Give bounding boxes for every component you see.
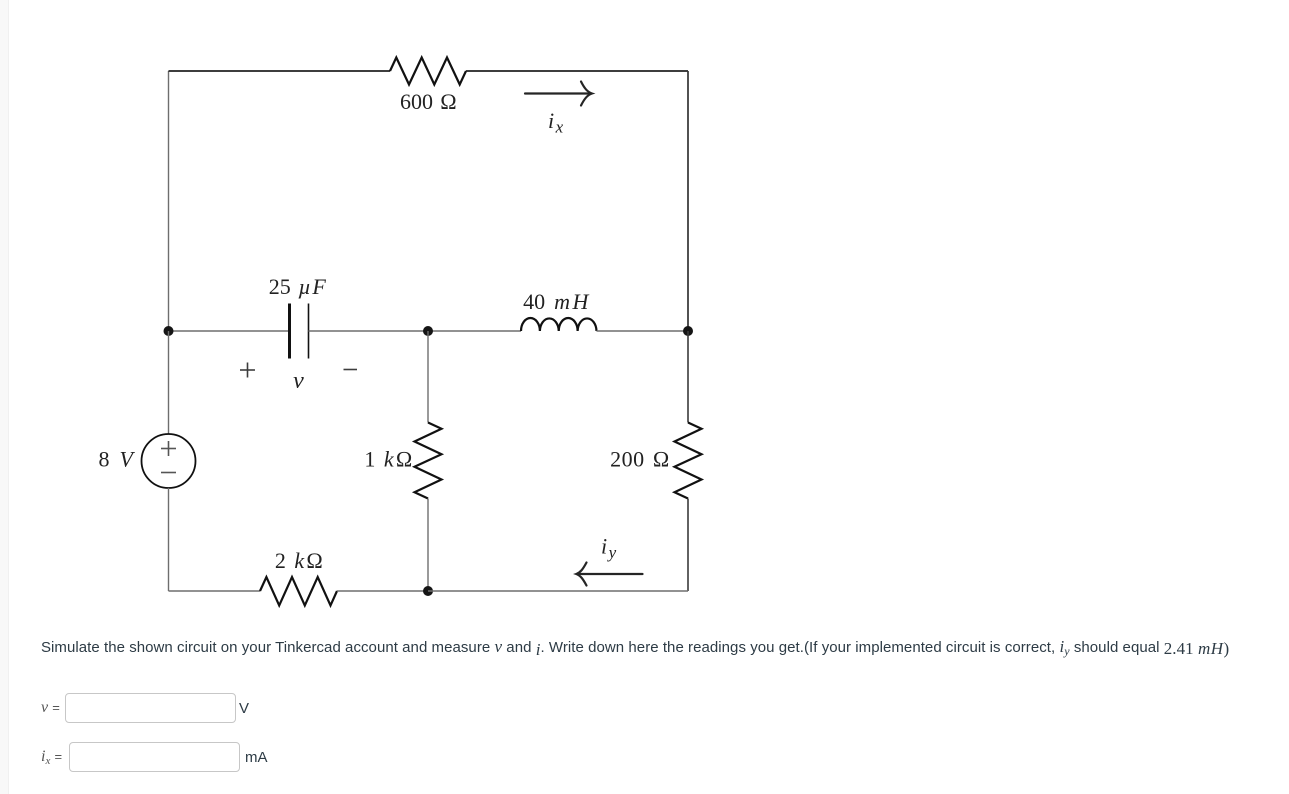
resistor 1 kOhm (415, 423, 442, 499)
answer row i_x (41, 748, 62, 767)
current arrow i_x (525, 82, 592, 106)
wire: bottom horizontal, node to bottom-right corner (428, 590, 688, 592)
svg-text:200 Ω: 200 Ω (610, 447, 670, 472)
voltage source 8 V (142, 434, 196, 488)
wire: middle rail, left node to capacitor (169, 330, 290, 332)
wire: right vertical, node to 200 ohm resistor (687, 331, 689, 423)
node B (middle-center) (423, 326, 433, 336)
wire: right vertical, 200 ohm to bottom-right corner (687, 499, 689, 592)
wire: left vertical, node to source top (168, 331, 170, 434)
svg-text:ix: ix (548, 108, 564, 137)
polarity plus (240, 363, 255, 378)
wire: left vertical, top corner to middle-left node (168, 71, 170, 331)
wire: middle rail, capacitor to center node (309, 330, 429, 332)
svg-text:2 kΩ: 2 kΩ (275, 548, 323, 573)
node C (middle-right) (683, 326, 693, 336)
question paragraph (41, 637, 1229, 659)
svg-text:600 Ω: 600 Ω (400, 89, 457, 114)
resistor 2 kOhm (260, 577, 337, 606)
wire: right vertical upper, top corner to middle-right node (687, 71, 689, 331)
inductor 40 mH (521, 318, 597, 331)
wire: bottom-left horizontal to 2k resistor (169, 590, 261, 592)
node A (middle-left) (164, 326, 174, 336)
wire: middle rail, inductor to right node (597, 330, 689, 332)
answer row v (41, 699, 60, 717)
wire: top horizontal, resistor to top-right corner (466, 70, 688, 72)
svg-text:25 µF: 25 µF (269, 274, 328, 299)
left page gutter strip (0, 0, 9, 794)
node D (bottom-center) (423, 586, 433, 596)
wire: center vertical, node to 1k resistor (427, 331, 429, 423)
resistor 600 ohm (top) (390, 58, 466, 85)
wire: middle rail, center node to inductor (428, 330, 521, 332)
svg-text:iy: iy (601, 534, 617, 563)
svg-text:1 kΩ: 1 kΩ (364, 447, 412, 472)
current arrow i_y (576, 563, 642, 586)
wire: center vertical, 1k resistor to bottom node (427, 499, 429, 592)
svg-text:8 V: 8 V (99, 447, 136, 472)
svg-text:40 mH: 40 mH (523, 289, 591, 314)
polarity minus (344, 369, 358, 371)
capacitor 25 uF (288, 304, 291, 359)
wire: left vertical, source bottom to bottom-left corner (168, 488, 170, 591)
resistor 200 Ohm (675, 423, 702, 499)
wire: bottom horizontal, 2k resistor to bottom node (337, 590, 428, 592)
wire: top-left horizontal to 600 ohm resistor (169, 70, 391, 72)
svg-text:v: v (293, 368, 304, 394)
